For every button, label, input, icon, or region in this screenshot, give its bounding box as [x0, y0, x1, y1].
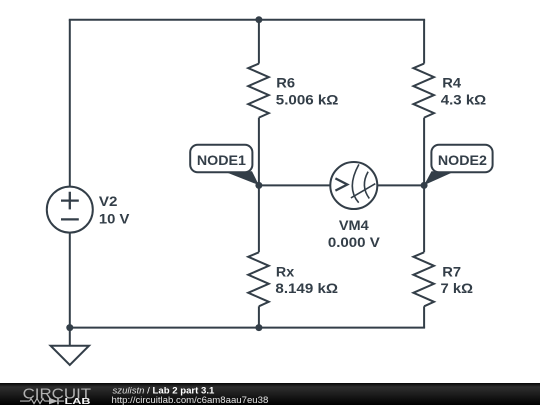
VM4 scale arc outer: [352, 164, 359, 202]
svg-text:V2: V2: [99, 195, 118, 210]
V2 plus sign: [61, 192, 79, 210]
wire NODE1 to Rx: [258, 185, 260, 252]
wire bottom horizontal: [69, 327, 425, 329]
junction dot bottom middle: [255, 324, 262, 331]
junction dot top: [255, 16, 262, 23]
wire Rx to bottom: [258, 306, 260, 327]
wire top horizontal: [69, 19, 425, 21]
wire right top lead: [423, 20, 425, 64]
svg-text:0.000 V: 0.000 V: [328, 236, 380, 251]
svg-text:R7: R7: [442, 264, 461, 279]
svg-text:LAB: LAB: [65, 396, 91, 405]
node NODE1 label box: [190, 145, 252, 173]
junction dot NODE2: [421, 182, 428, 189]
logo wire: [20, 400, 64, 402]
svg-text:R4: R4: [442, 75, 461, 90]
junction dot bottom ground: [66, 324, 73, 331]
wire left lower vertical: [69, 233, 71, 328]
wire ground stub: [69, 328, 71, 346]
voltmeter VM4: [330, 162, 377, 209]
node NODE2 label box: [431, 145, 492, 173]
resistor R7: [413, 252, 434, 306]
svg-text:7 kΩ: 7 kΩ: [441, 282, 473, 297]
wire NODE1 to VM4: [259, 184, 331, 186]
VM4 scale arc inner: [364, 172, 369, 199]
wire left upper vertical: [69, 20, 71, 187]
VM4 needle: [351, 184, 375, 198]
VM4 arrow: [335, 178, 347, 190]
svg-text:NODE1: NODE1: [197, 152, 246, 168]
svg-text:R6: R6: [276, 75, 295, 90]
wire middle top lead: [258, 20, 260, 64]
wire R7 to bottom: [423, 306, 425, 327]
junction dot NODE1: [255, 182, 262, 189]
resistor R6: [248, 64, 269, 118]
resistor Rx: [248, 252, 269, 306]
svg-text:NODE2: NODE2: [438, 152, 487, 168]
resistor R4: [413, 64, 434, 118]
logo resistor squiggle: [30, 398, 45, 403]
wire R4 to NODE2: [423, 118, 425, 186]
wire NODE2 to R7: [423, 185, 425, 252]
wire VM4 to NODE2: [377, 184, 424, 186]
footer bar: [0, 383, 540, 405]
wire R6 to NODE1: [258, 118, 260, 186]
svg-text:10 V: 10 V: [99, 212, 130, 227]
node NODE1 callout pointer: [224, 171, 259, 185]
ground: [51, 346, 89, 365]
svg-text:4.3 kΩ: 4.3 kΩ: [441, 93, 486, 108]
node NODE2 callout pointer: [424, 171, 455, 185]
voltage source V2: [47, 187, 93, 233]
svg-text:8.149 kΩ: 8.149 kΩ: [275, 282, 338, 297]
logo diode: [49, 397, 58, 404]
svg-text:5.006 kΩ: 5.006 kΩ: [276, 93, 339, 108]
V2 minus sign: [61, 218, 79, 220]
svg-text:http://circuitlab.com/c6am8aau: http://circuitlab.com/c6am8aau7eu38: [112, 395, 269, 405]
svg-text:VM4: VM4: [339, 217, 369, 232]
svg-text:Rx: Rx: [276, 264, 295, 280]
